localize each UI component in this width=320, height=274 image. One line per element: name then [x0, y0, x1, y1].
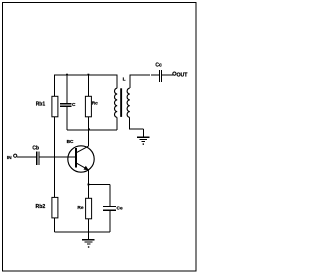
label IN — [7, 155, 12, 161]
svg-text:Ce: Ce — [117, 205, 123, 211]
svg-text:Cb: Cb — [32, 146, 39, 152]
wire left rail middle segment — [54, 117, 56, 198]
inductor L primary winding — [115, 88, 118, 117]
svg-text:Rb1: Rb1 — [36, 102, 46, 108]
wire collector vertical — [87, 130, 89, 146]
ground secondary — [137, 137, 150, 144]
label L — [123, 76, 126, 82]
label Re — [77, 205, 83, 211]
wire emitter vertical upper — [88, 170, 90, 185]
wire Ce top segment — [109, 184, 111, 206]
label Rb1 — [36, 102, 46, 108]
wire Ce bottom segment — [109, 211, 111, 232]
node junction dot emitter — [88, 184, 90, 186]
label Cc — [155, 63, 162, 69]
label C — [72, 102, 76, 108]
wire left rail upper segment — [54, 75, 56, 97]
svg-text:OUT: OUT — [177, 72, 189, 78]
wire Rc top segment — [87, 75, 89, 97]
svg-text:Cc: Cc — [155, 63, 162, 69]
wire secondary top segment — [130, 75, 159, 88]
transistor Q1 circle — [68, 146, 94, 172]
wire tank rail — [67, 129, 117, 131]
wire capacitor C top segment — [66, 75, 68, 104]
label Rc — [92, 101, 98, 107]
svg-text:Rb2: Rb2 — [36, 204, 46, 210]
resistor Rc — [85, 96, 91, 117]
svg-text:IN: IN — [7, 155, 12, 161]
wire left rail lower segment — [54, 218, 56, 232]
capacitor C — [60, 104, 71, 106]
terminal OUT circle — [173, 72, 176, 75]
wire ground stub secondary — [142, 129, 144, 137]
inductor secondary winding — [127, 88, 130, 117]
wire Rc bottom segment — [87, 117, 89, 130]
wire primary top segment — [116, 75, 118, 89]
svg-text:Re: Re — [77, 205, 83, 211]
wire Cb to base — [40, 156, 76, 158]
wire Cc to OUT — [162, 74, 173, 76]
wire secondary bottom segment — [130, 117, 144, 128]
resistor Re — [86, 198, 92, 219]
svg-text:Rc: Rc — [92, 101, 98, 107]
capacitor Cb — [37, 152, 39, 165]
resistor Rb1 — [52, 96, 58, 117]
label OUT — [177, 72, 189, 78]
wire emitter to Re — [88, 184, 90, 198]
node junction dot on top rail at C — [66, 74, 68, 76]
node junction dot collector tank — [88, 128, 90, 130]
transistor Q1 base bar — [75, 148, 77, 167]
terminal IN circle — [14, 154, 17, 157]
resistor Rb2 — [52, 197, 58, 218]
wire ground stub main — [88, 232, 90, 240]
capacitor Ce — [103, 207, 116, 211]
transistor Q1 emitter stroke with arrow — [77, 163, 89, 170]
svg-text:L: L — [123, 76, 126, 82]
wire primary bottom segment — [116, 117, 118, 130]
label Cb — [32, 146, 39, 152]
capacitor Cc — [159, 70, 161, 82]
label BC — [67, 139, 74, 145]
wire emitter branch horizontal — [89, 183, 110, 185]
svg-text:C: C — [72, 102, 76, 108]
transformer core bar — [120, 88, 122, 117]
label Ce — [117, 205, 123, 211]
wire bottom ground rail — [55, 231, 110, 233]
label Rb2 — [36, 204, 46, 210]
wire capacitor C bottom segment — [66, 107, 68, 131]
ground main — [82, 240, 95, 248]
wire top supply rail — [55, 74, 117, 76]
wire Re bottom segment — [88, 219, 90, 232]
svg-text:BC: BC — [67, 139, 74, 145]
node junction dot on top rail at Rc — [88, 74, 90, 76]
wire IN to Cb — [17, 156, 36, 158]
transistor Q1 collector stroke — [77, 146, 89, 152]
